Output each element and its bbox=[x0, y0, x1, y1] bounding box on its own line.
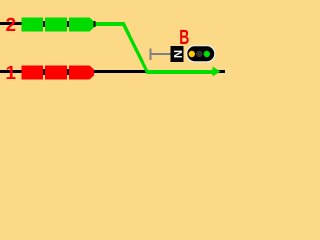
wire route line bottom (green) bbox=[147, 70, 214, 74]
node joint tick 2a bbox=[43, 21, 45, 27]
wire track 1 line bbox=[0, 70, 225, 73]
node joint tick 1b bbox=[67, 69, 69, 75]
svg-text:1: 1 bbox=[6, 63, 17, 84]
node joint tick 2b bbox=[67, 21, 69, 27]
node track 2 block B (green) bbox=[45, 18, 67, 32]
node track 1 block B (red) bbox=[45, 66, 67, 80]
node track 2 block A (green) bbox=[22, 18, 44, 32]
wire route line top (green) bbox=[96, 22, 123, 26]
svg-text:N: N bbox=[171, 50, 183, 58]
node signal lamp yellow bbox=[189, 51, 195, 57]
node signal lamp green bbox=[204, 51, 210, 57]
svg-text:B: B bbox=[179, 26, 189, 49]
node signal mast tick bbox=[150, 49, 152, 61]
node joint tick 2c bbox=[94, 21, 96, 27]
node track 1 block C (red, pointed) bbox=[69, 66, 94, 80]
node route arrow (green) bbox=[213, 67, 221, 77]
svg-text:2: 2 bbox=[6, 15, 17, 36]
wire signal mast bar bbox=[152, 53, 171, 55]
node joint tick 1a bbox=[43, 69, 45, 75]
wire route diagonal (green) bbox=[121, 22, 151, 74]
node signal head bbox=[186, 45, 216, 63]
node track 2 block C (green, pointed) bbox=[69, 18, 94, 32]
node signal N-box bbox=[171, 46, 184, 62]
wire track 2 line bbox=[0, 22, 122, 25]
node signal lamp off bbox=[196, 51, 202, 57]
node track 1 block A (red) bbox=[22, 66, 44, 80]
